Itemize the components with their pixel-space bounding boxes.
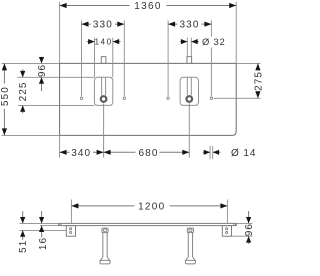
dimension dia 32 bbox=[180, 39, 199, 44]
svg-text:330: 330 bbox=[180, 20, 200, 31]
rail end serration right bbox=[234, 224, 236, 226]
faucet hole 2 bbox=[187, 57, 192, 64]
dimension 550 bbox=[2, 63, 7, 135]
svg-text:96: 96 bbox=[244, 223, 255, 236]
svg-text:Ø 14: Ø 14 bbox=[231, 148, 256, 159]
extension lines plan bbox=[2, 2, 261, 160]
dimension 225 bbox=[20, 69, 25, 113]
dimension 1200 bbox=[71, 203, 227, 208]
fixing hole D bbox=[210, 97, 212, 99]
drain ring 2 bbox=[187, 96, 193, 102]
fixing hole B bbox=[123, 97, 125, 99]
ext 1200 left bbox=[70, 200, 72, 224]
ext basin front bbox=[18, 104, 94, 106]
ext 140 left bbox=[94, 38, 96, 78]
ext 1360 right bbox=[235, 2, 237, 64]
dimension 1360 bbox=[60, 3, 237, 8]
bracket right bbox=[222, 226, 231, 237]
drain stem 1 bbox=[103, 103, 105, 157]
ext 16 bottom bbox=[40, 225, 59, 227]
ext holes row right bbox=[214, 97, 261, 99]
ext dia32 left bbox=[186, 38, 188, 57]
dimension 330 right bbox=[168, 22, 211, 27]
ext rail top right bbox=[236, 222, 252, 224]
basin cutout 1 bbox=[94, 77, 112, 105]
ext 1200 right bbox=[226, 200, 228, 224]
wall rail bbox=[59, 223, 237, 225]
ext bracket bottom right bbox=[232, 235, 253, 237]
dimension dia 14 bbox=[203, 150, 221, 155]
trap leg 2 bbox=[185, 228, 195, 264]
dimension 330 left bbox=[82, 22, 125, 27]
rail end serration left bbox=[60, 224, 62, 226]
drain ring 1 bbox=[101, 96, 107, 102]
ext 330 hole D bbox=[210, 21, 212, 97]
dimension 140 bbox=[87, 39, 121, 44]
svg-text:550: 550 bbox=[0, 86, 11, 106]
ext 1360 left bbox=[59, 2, 61, 64]
ext 330 hole A bbox=[81, 21, 83, 97]
ext top edge right bbox=[236, 62, 260, 64]
fixing hole C bbox=[167, 97, 169, 99]
dimension 96 right bbox=[246, 211, 251, 244]
ext dia14 right bbox=[212, 146, 214, 160]
ext rail top left bbox=[20, 222, 59, 224]
drain stem 2 bbox=[188, 103, 190, 157]
ext 140 right bbox=[112, 38, 114, 78]
ext corner down 340 bbox=[59, 135, 61, 157]
ext top edge left bbox=[2, 62, 60, 64]
ext bottom edge left bbox=[2, 134, 60, 136]
fixing hole A bbox=[80, 97, 82, 99]
dimension 275 bbox=[255, 63, 260, 98]
dimension 96 left bbox=[39, 57, 44, 91]
extension lines bottom view bbox=[20, 200, 253, 237]
svg-text:330: 330 bbox=[93, 20, 113, 31]
svg-text:275: 275 bbox=[253, 71, 263, 91]
svg-text:340: 340 bbox=[71, 148, 91, 159]
dimension 16 bbox=[39, 211, 44, 237]
svg-text:1360: 1360 bbox=[134, 1, 161, 12]
trap leg 1 bbox=[100, 228, 110, 264]
dimension 51 bbox=[20, 211, 25, 240]
ext dia32 right bbox=[190, 38, 192, 57]
ext 330 hole B bbox=[123, 21, 125, 97]
svg-text:51: 51 bbox=[18, 240, 29, 253]
slot 2 bbox=[187, 77, 191, 95]
svg-text:Ø 32: Ø 32 bbox=[202, 36, 226, 47]
svg-text:225: 225 bbox=[18, 81, 29, 101]
svg-text:96: 96 bbox=[37, 64, 48, 77]
faucet hole 1 bbox=[101, 57, 106, 64]
bracket left bbox=[66, 226, 75, 237]
basin cutout 2 bbox=[180, 77, 198, 105]
ext basin back bbox=[18, 76, 95, 78]
slot 1 bbox=[102, 77, 106, 95]
svg-text:1200: 1200 bbox=[138, 202, 165, 213]
ext 51 bottom bbox=[20, 229, 67, 231]
svg-text:140: 140 bbox=[95, 38, 113, 47]
svg-text:16: 16 bbox=[38, 237, 49, 250]
dimension 340 bbox=[60, 150, 104, 155]
svg-text:680: 680 bbox=[139, 148, 159, 159]
ext 330 hole C bbox=[167, 21, 169, 97]
dimension 680 bbox=[104, 150, 190, 155]
countertop outline bbox=[60, 63, 237, 135]
ext dia14 left bbox=[209, 146, 211, 160]
